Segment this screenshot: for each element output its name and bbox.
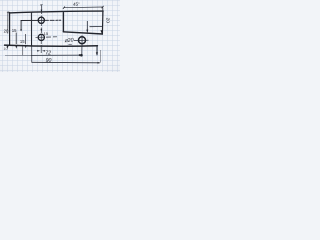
node tick left dim top [7, 11, 9, 13]
wire step vertical edge [62, 13, 64, 32]
wire inner horizontal line [21, 19, 61, 21]
hole C3 right [79, 37, 86, 44]
wire bottom right corner extension [96, 46, 98, 56]
wire top edge of plate [9, 11, 103, 13]
svg-text:⌀20: ⌀20 [64, 37, 74, 44]
wire dim line x25 [24, 34, 26, 44]
centerline vertical C3 [81, 35, 83, 45]
svg-text:15: 15 [20, 39, 25, 44]
hole C2 below C1 [38, 34, 44, 40]
wire dim line x16 [15, 33, 17, 44]
node arrow bottom edge x16 [15, 46, 17, 49]
node arrow bottom edge x7.5 [7, 46, 9, 49]
wire right thin horizontal [90, 26, 103, 28]
node arrow bottom edge x25 [25, 46, 27, 48]
svg-text:90: 90 [46, 58, 52, 64]
svg-text:45°: 45° [73, 1, 80, 6]
wire inner vertical edge [30, 13, 32, 45]
node smudge above bottom edge [68, 44, 71, 45]
wire left vertical dimension line [7, 12, 9, 34]
svg-text:72: 72 [45, 51, 51, 57]
wire inner vertical dim line [20, 21, 22, 31]
node arrow centerline above C2 [41, 29, 43, 32]
node arrow bottom right corner ext [96, 52, 98, 55]
centerline horizontal C3 [74, 39, 89, 41]
graph paper background [0, 0, 120, 72]
wire C3 centerline extension to dim A [81, 45, 83, 55]
wire right tab dim vertical [86, 21, 88, 32]
node arrow below inner dim line [20, 29, 22, 31]
node arrow right tab dim [86, 30, 88, 33]
wire right edge of plate [101, 12, 104, 35]
node tick top dim right end [102, 6, 104, 8]
hole C1 top left [38, 17, 44, 23]
node arrow dim B right end [98, 62, 100, 64]
dimension line B (90) [32, 61, 100, 64]
svg-text:10: 10 [3, 47, 7, 51]
svg-text:20: 20 [4, 28, 9, 33]
wire extension below inner edge [31, 45, 33, 62]
dimension line A (72) [5, 54, 31, 56]
wire extension x22 below bottom [22, 46, 24, 55]
node arrow C1 centerline on top edge [41, 10, 43, 13]
node small arrows at C1C2 centerline bottom [37, 50, 45, 52]
svg-text:15: 15 [44, 31, 49, 36]
node arrow on step edge right [100, 30, 103, 34]
centerline horizontal C2 [36, 36, 58, 39]
wire left edge of plate [9, 13, 11, 46]
wire extension right of B dim [99, 50, 101, 63]
svg-text:20: 20 [104, 18, 110, 24]
svg-text:15: 15 [12, 28, 17, 33]
node arrow dim A right end [79, 54, 82, 56]
wire bottom edge of plate [5, 45, 98, 46]
wire right edge dim tick overlap [102, 8, 104, 16]
node tick top dim left end [63, 7, 65, 9]
wire step horizontal edge [63, 32, 102, 34]
centerline vertical through C1 C2 [40, 5, 42, 53]
wire top dimension line [64, 6, 103, 9]
